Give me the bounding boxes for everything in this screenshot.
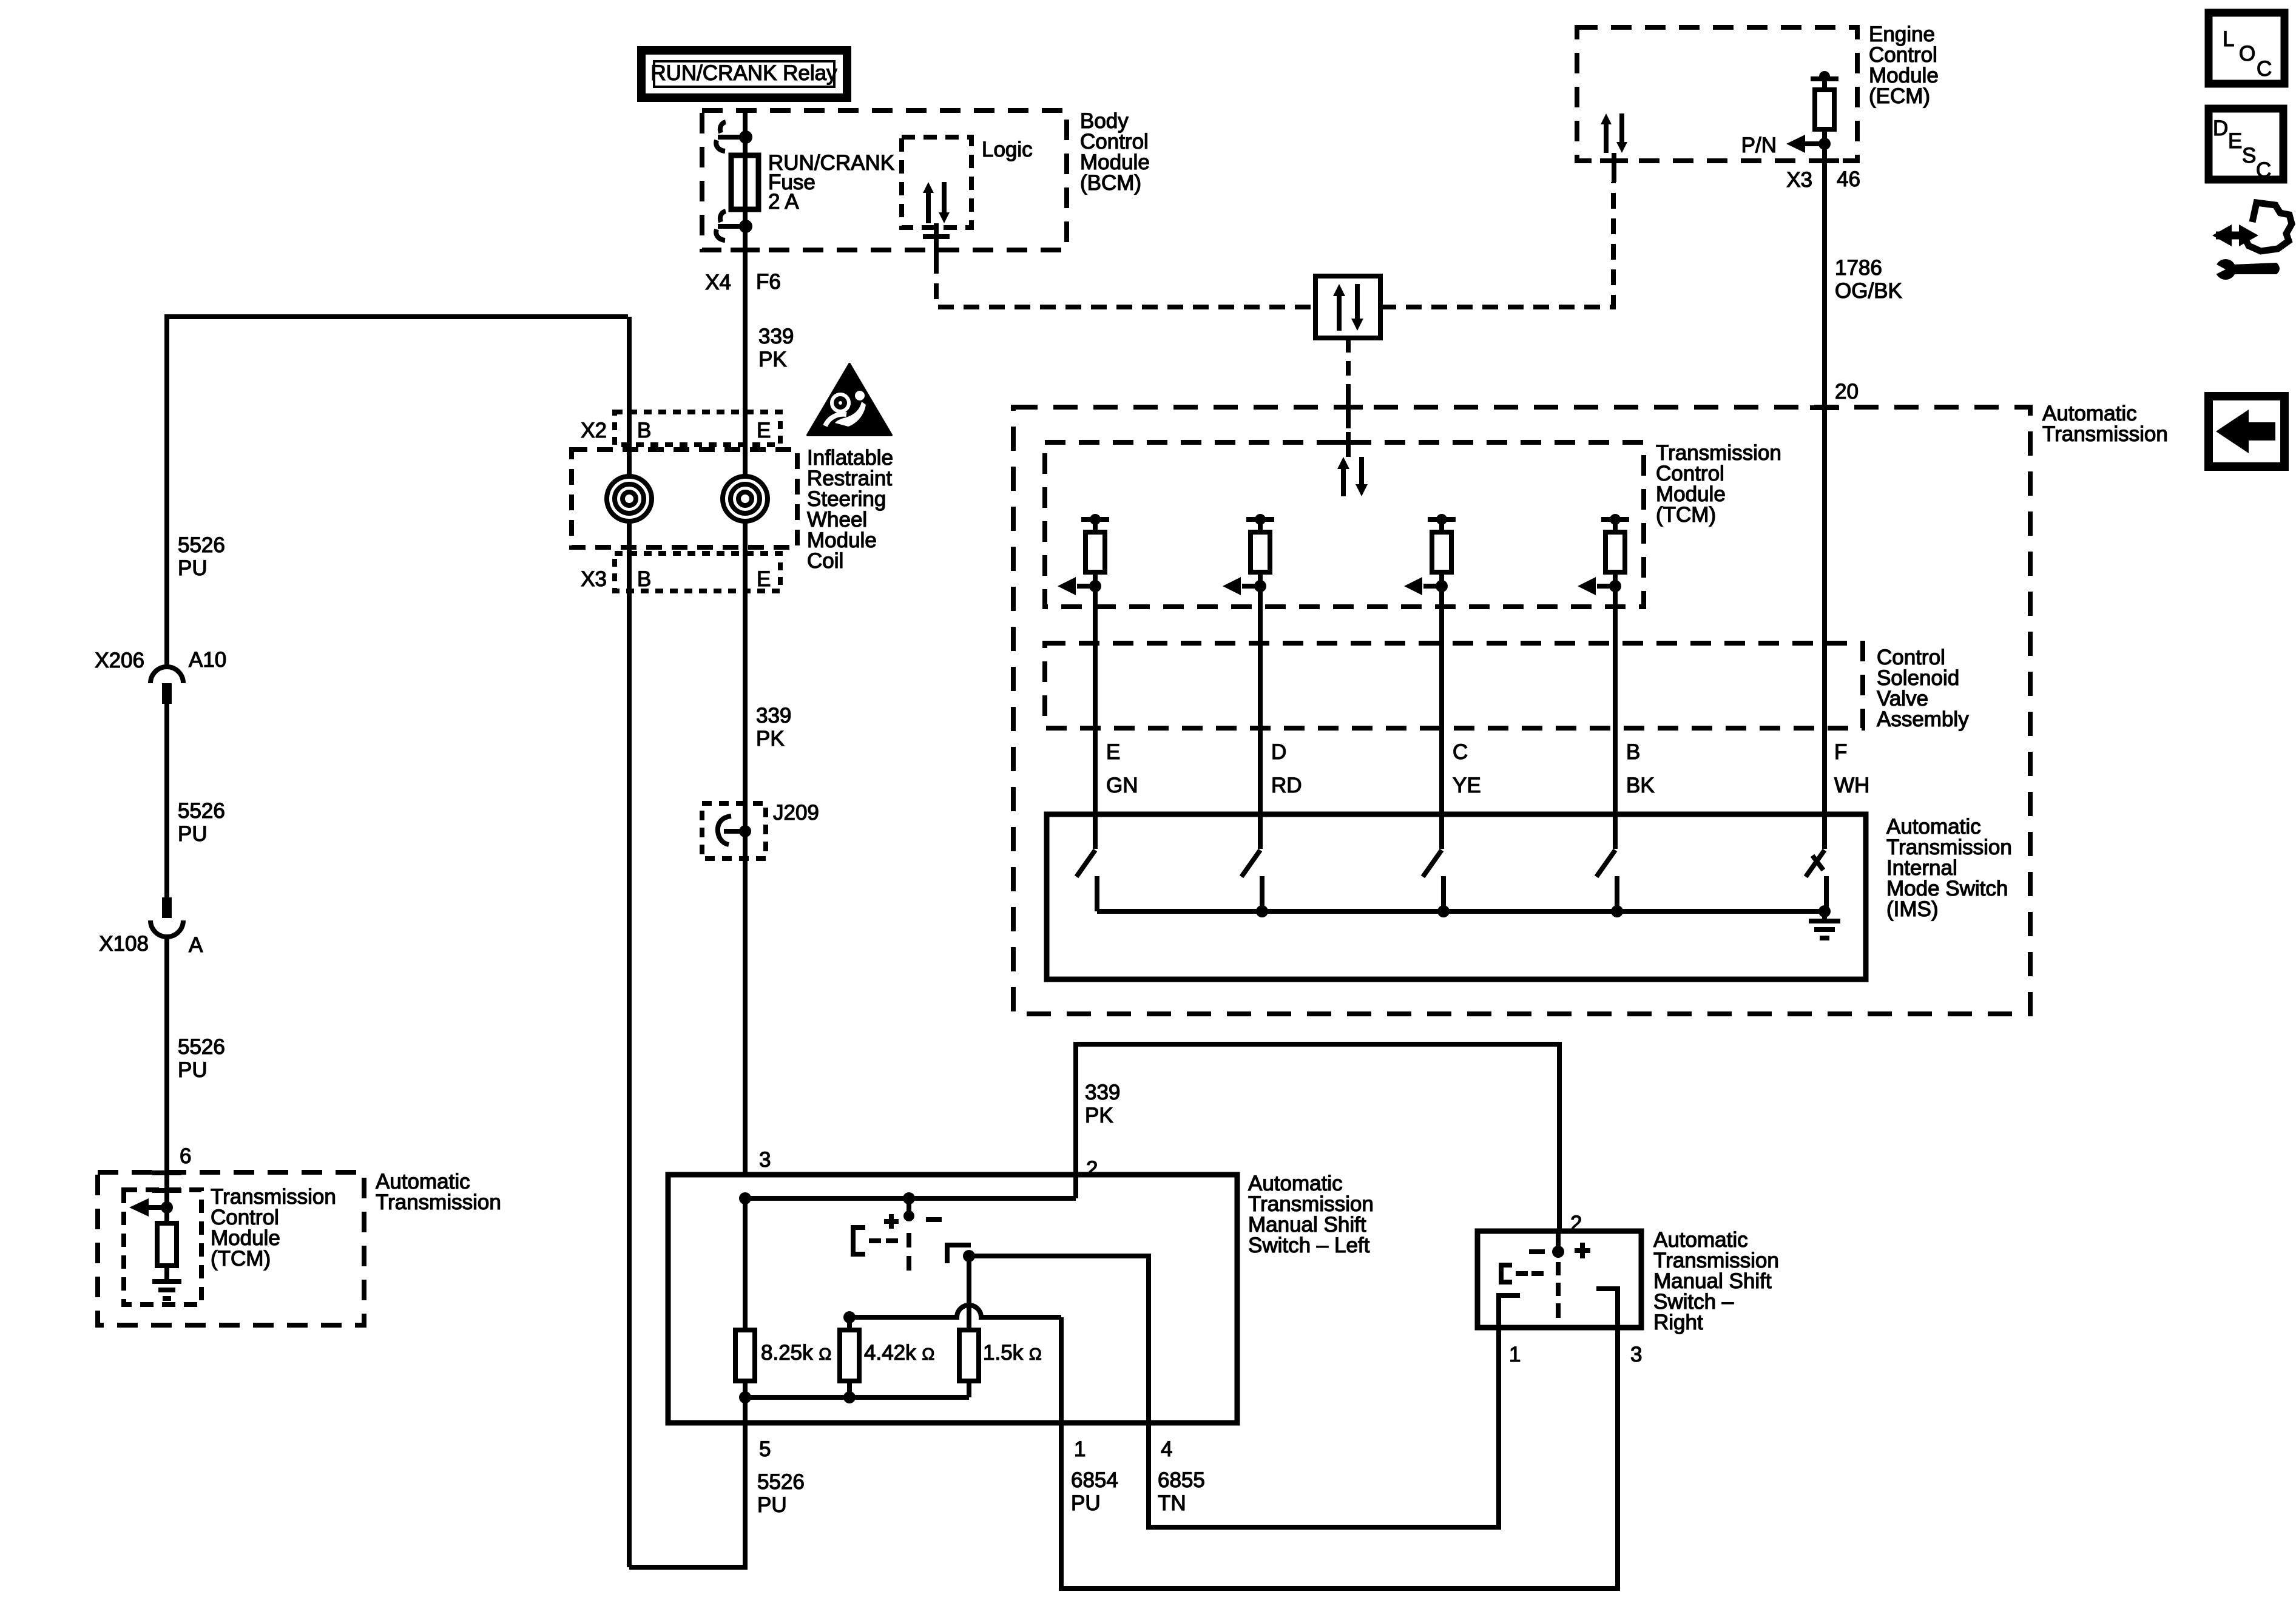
Body Control Module (BCM) dashed box: [702, 110, 1067, 250]
serial data wire gateway to ECM (dashed): [1380, 182, 1613, 307]
Automatic Transmission dashed box (lower left): [98, 1172, 364, 1325]
svg-text:YE: YE: [1453, 774, 1481, 797]
svg-text:339: 339: [1085, 1081, 1120, 1104]
J209 clip: [718, 816, 751, 845]
coil module dashed box: [572, 450, 797, 547]
left switch bottom bus: [739, 1391, 969, 1403]
svg-text:RD: RD: [1271, 774, 1302, 797]
svg-text:5526: 5526: [178, 1035, 225, 1059]
svg-text:Logic: Logic: [982, 138, 1033, 161]
serial data gateway box: [1315, 276, 1380, 338]
svg-text:PK: PK: [758, 348, 787, 371]
svg-text:P/N: P/N: [1741, 133, 1777, 157]
svg-text:3: 3: [759, 1148, 771, 1172]
Transmission Control Module (TCM) dashed box: [1045, 442, 1644, 607]
AT case serial crossing: [1334, 396, 1363, 419]
svg-text:X3: X3: [581, 567, 607, 591]
svg-text:TN: TN: [1158, 1491, 1186, 1515]
TCM input node: [161, 1201, 173, 1214]
solenoid driver C: [1404, 514, 1456, 849]
wire 5526 PU lower: [164, 937, 169, 1207]
serial data wire BCM to gateway (dashed): [936, 258, 1315, 307]
wire 339 PK coil E-side: [743, 412, 748, 478]
svg-text:3: 3: [1630, 1343, 1642, 1366]
wire coil B-side drop: [627, 317, 632, 478]
connector row X2 dotted box: [615, 412, 780, 445]
coil spiral E: [723, 476, 768, 521]
right switch wiper dashed travel: [1556, 1262, 1561, 1318]
right switch contact pin 3: [1596, 1289, 1618, 1328]
Automatic Transmission dashed box (main): [1013, 407, 2030, 1014]
connector X108 A: [150, 897, 183, 937]
svg-text:D: D: [1271, 740, 1286, 764]
svg-text:6: 6: [180, 1144, 191, 1168]
Control Solenoid Valve Assembly dashed box: [1045, 643, 1863, 728]
svg-text:Right: Right: [1653, 1311, 1703, 1334]
icon back-arrow: [2209, 396, 2284, 467]
right switch wiper: [1529, 1231, 1590, 1258]
BCM Logic dashed box: [902, 137, 971, 228]
wire 5526 PU mid: [164, 704, 169, 897]
svg-text:E: E: [757, 567, 771, 591]
IMS switch B: [1596, 850, 1617, 911]
icon service/wrench: [2212, 203, 2292, 280]
Manual Shift Switch Left box: [668, 1175, 1237, 1423]
IMS switch C: [1423, 850, 1443, 911]
svg-text:B: B: [637, 419, 651, 442]
left switch down contact: [947, 1245, 975, 1263]
splice J209 dotted box: [702, 803, 766, 859]
svg-text:E: E: [2228, 129, 2242, 153]
svg-text:2 A: 2 A: [768, 190, 799, 214]
wire relay through fuse: [743, 110, 748, 412]
svg-text:Switch – Left: Switch – Left: [1248, 1234, 1370, 1257]
svg-text:4: 4: [1161, 1437, 1172, 1461]
svg-text:F6: F6: [756, 270, 781, 294]
svg-text:S: S: [2242, 144, 2256, 167]
svg-text:C: C: [2257, 57, 2272, 81]
resistor 8.25k: [735, 1198, 755, 1397]
Engine Control Module (ECM) dashed box: [1577, 27, 1857, 161]
connector row X3 dotted box: [615, 553, 780, 591]
svg-text:Transmission: Transmission: [376, 1190, 501, 1214]
svg-text:PK: PK: [1085, 1104, 1113, 1127]
AT case crossing bar (pin 20): [1810, 405, 1839, 410]
Manual Shift Switch Right box: [1477, 1231, 1641, 1328]
right switch contact pin 1: [1499, 1295, 1520, 1328]
left switch wiper stub: [884, 1198, 942, 1229]
svg-text:PK: PK: [756, 727, 785, 751]
svg-text:(ECM): (ECM): [1869, 84, 1930, 108]
BCM logic serial arrows: [923, 182, 950, 223]
TCM pull-up resistor (lower): [157, 1207, 177, 1281]
wire 1786 OG/BK: [1822, 144, 1827, 849]
svg-text:D: D: [2213, 116, 2228, 140]
svg-text:5526: 5526: [178, 533, 225, 557]
svg-text:8.25k Ω: 8.25k Ω: [761, 1341, 831, 1365]
BCM case crossing bar X4/F6: [731, 248, 760, 252]
svg-text:1: 1: [1074, 1437, 1086, 1461]
svg-text:J209: J209: [773, 801, 819, 825]
ECM case crossing bar X3/46: [1810, 158, 1839, 163]
IMS switch F: [1806, 850, 1826, 911]
TCM signal arrow: [129, 1198, 167, 1217]
svg-text:339: 339: [756, 704, 791, 727]
ECM serial arrows: [1601, 113, 1627, 153]
relay contact top: [716, 122, 752, 151]
svg-text:1786: 1786: [1835, 256, 1882, 280]
svg-text:339: 339: [758, 325, 794, 348]
svg-text:(TCM): (TCM): [1656, 503, 1716, 527]
airbag warning triangle: [808, 364, 891, 435]
fuse RUN/CRANK 2A: [731, 155, 758, 209]
svg-text:4.42k Ω: 4.42k Ω: [864, 1341, 934, 1365]
svg-text:(BCM): (BCM): [1080, 171, 1141, 195]
solenoid driver B: [1578, 514, 1629, 849]
svg-text:O: O: [2239, 42, 2255, 66]
left switch node line: [739, 1192, 1076, 1204]
serial data wire gateway to TCM (dashed): [1346, 338, 1351, 397]
svg-text:BK: BK: [1626, 774, 1655, 797]
wire 5526 PU return loop: [629, 1397, 745, 1567]
resistor 4.42k: [840, 1317, 859, 1397]
svg-text:46: 46: [1837, 167, 1860, 191]
svg-text:Transmission: Transmission: [2042, 422, 2168, 446]
svg-text:PU: PU: [178, 1058, 208, 1082]
svg-text:Assembly: Assembly: [1877, 707, 1969, 731]
ground (TCM internal): [152, 1281, 181, 1298]
icon DESC: [2209, 109, 2283, 182]
svg-text:PU: PU: [1071, 1491, 1101, 1515]
wire resistor row to pin 1 (with hop): [843, 1305, 1061, 1323]
svg-text:C: C: [1453, 740, 1468, 764]
resistor 1.5k: [959, 1330, 979, 1397]
svg-text:(TCM): (TCM): [211, 1247, 271, 1271]
svg-text:A: A: [189, 933, 203, 957]
wire contact to pin 4: [969, 1256, 1499, 1527]
svg-text:6855: 6855: [1158, 1468, 1205, 1492]
svg-text:Coil: Coil: [807, 549, 843, 573]
ECM serial pin bar: [1600, 153, 1628, 182]
IMS common bus: [1097, 905, 1831, 917]
svg-text:WH: WH: [1834, 774, 1869, 797]
svg-text:PU: PU: [178, 556, 208, 580]
svg-text:(IMS): (IMS): [1886, 897, 1939, 921]
svg-text:1.5k Ω: 1.5k Ω: [983, 1341, 1042, 1365]
svg-text:5526: 5526: [757, 1470, 805, 1494]
svg-text:GN: GN: [1106, 774, 1138, 797]
svg-text:20: 20: [1835, 380, 1859, 403]
left switch wiper dashed travel: [907, 1233, 911, 1271]
svg-text:F: F: [1834, 740, 1847, 764]
svg-text:5: 5: [759, 1437, 771, 1461]
svg-text:E: E: [1106, 740, 1120, 764]
svg-text:E: E: [757, 419, 771, 442]
right switch actuator bracket: [1501, 1265, 1544, 1282]
BCM serial pin bar: [923, 223, 950, 258]
icon LOC: [2209, 13, 2284, 84]
connector X206 A10: [150, 667, 183, 704]
ECM pull-up resistor: [1811, 71, 1838, 150]
svg-text:A10: A10: [189, 648, 226, 672]
IMS switch D: [1241, 850, 1262, 911]
svg-text:C: C: [2256, 158, 2271, 182]
wire 339 PK to switches: [1076, 1044, 1559, 1231]
RUN/CRANK Relay label box: [641, 50, 847, 98]
svg-text:X4: X4: [705, 271, 731, 294]
left switch actuator bracket: [853, 1227, 898, 1254]
svg-text:X2: X2: [581, 419, 607, 442]
svg-text:RUN/CRANK Relay: RUN/CRANK Relay: [650, 61, 837, 85]
svg-text:B: B: [1626, 740, 1640, 764]
svg-text:B: B: [637, 567, 651, 591]
case crossing bars pin 6: [152, 1173, 181, 1190]
svg-text:X206: X206: [95, 649, 144, 672]
IMS switch E: [1076, 850, 1097, 911]
svg-text:L: L: [2223, 27, 2234, 51]
P/N signal arrow: [1786, 135, 1825, 153]
solenoid driver D: [1223, 514, 1274, 849]
svg-text:1: 1: [1509, 1343, 1521, 1366]
svg-text:PU: PU: [757, 1493, 787, 1517]
TCM case serial crossing: [1334, 432, 1363, 457]
IMS solid box: [1047, 814, 1866, 979]
svg-text:PU: PU: [178, 822, 208, 846]
solenoid driver E: [1058, 514, 1109, 849]
wire contact stub through hop: [967, 1256, 971, 1330]
coil spiral B: [607, 476, 652, 521]
svg-text:X3: X3: [1786, 168, 1812, 192]
TCM serial arrows: [1337, 457, 1368, 496]
svg-text:X108: X108: [99, 932, 149, 956]
IMS ground: [1809, 911, 1840, 938]
svg-text:6854: 6854: [1071, 1468, 1118, 1492]
svg-text:OG/BK: OG/BK: [1835, 279, 1902, 303]
wire pin 1 to right switch pin 3: [1061, 1317, 1618, 1588]
wire 5526 PU top run: [167, 317, 628, 667]
relay contact bottom: [716, 211, 752, 240]
svg-text:5526: 5526: [178, 799, 225, 823]
TCM dashed box (lower left): [124, 1190, 201, 1305]
